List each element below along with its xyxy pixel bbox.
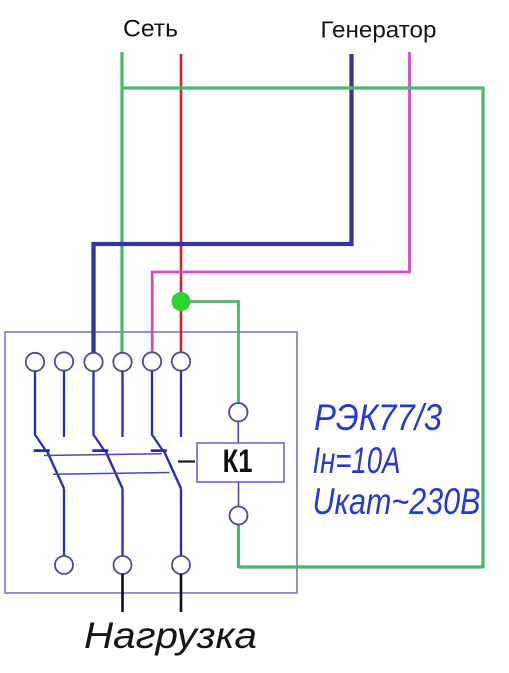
svg-text:Нагрузка: Нагрузка <box>84 615 257 656</box>
wire stub from terminal 6 <box>180 371 182 437</box>
load terminal 1 <box>55 556 73 574</box>
wire green coil feed from tap <box>181 302 239 404</box>
switch pole 2 moving blade <box>105 450 123 489</box>
wire stub from terminal 1 <box>34 371 36 436</box>
terminal 4 <box>113 353 131 371</box>
wire magenta generator phase <box>152 52 409 353</box>
wire green mains neutral vertical <box>120 52 123 354</box>
wire navy generator phase <box>94 54 352 354</box>
wire stub from terminal 2 <box>63 371 65 437</box>
svg-text:К1: К1 <box>223 444 253 479</box>
switch pole 1 contact seat <box>34 449 50 452</box>
wire stub from terminal 5 <box>151 371 153 436</box>
wire stub from terminal 3 <box>92 371 94 436</box>
relay box РЭК77/3 outline <box>5 332 297 593</box>
relay coil K1 box <box>197 443 284 482</box>
wire coil upper lead <box>237 421 239 443</box>
svg-text:Сеть: Сеть <box>123 16 178 43</box>
wire black load lead right <box>180 574 183 612</box>
mechanical linkage bar lower <box>53 473 170 475</box>
switch pole 3 moving blade <box>163 450 181 489</box>
switch pole 3 fixed contact hook <box>152 435 162 450</box>
terminal 1 <box>26 353 44 371</box>
wire stub from terminal 4 <box>121 371 123 437</box>
switch pole 2 fixed contact hook <box>94 435 104 450</box>
switch pole 3 blade lead <box>180 489 182 557</box>
switch pole 2 contact seat <box>92 449 108 452</box>
wire red mains phase vertical <box>180 54 183 353</box>
switch pole 1 moving blade <box>46 450 64 489</box>
load terminal 3 <box>172 556 190 574</box>
terminal 2 <box>55 352 73 370</box>
switch pole 3 contact seat <box>151 449 167 452</box>
coil terminal upper <box>229 403 247 421</box>
wire green coil return below K1 <box>237 523 240 568</box>
terminal 3 <box>84 353 102 371</box>
switch pole 1 blade lead <box>63 489 65 557</box>
junction node green dot on red wire <box>172 292 191 311</box>
svg-text:Генератор: Генератор <box>321 17 437 43</box>
switch pole 1 fixed contact hook <box>35 435 45 450</box>
wire coil lower lead <box>238 482 240 506</box>
mechanical linkage bar upper <box>44 454 162 456</box>
switch pole 2 blade lead <box>121 489 123 557</box>
svg-text:РЭК77/3: РЭК77/3 <box>314 397 442 438</box>
wire black load lead left <box>121 574 124 612</box>
load terminal 2 <box>114 556 132 574</box>
terminal 5 <box>143 352 161 370</box>
wire green bottom horizontal <box>239 565 485 568</box>
svg-text:Iн=10А: Iн=10А <box>313 440 401 481</box>
svg-text:Uкат~230В: Uкат~230В <box>313 481 481 522</box>
terminal 6 <box>172 352 190 370</box>
coil actuation dash <box>178 460 195 462</box>
wire green right vertical <box>481 87 484 569</box>
wire green top horizontal branch <box>122 86 483 89</box>
coil terminal lower <box>230 507 248 525</box>
